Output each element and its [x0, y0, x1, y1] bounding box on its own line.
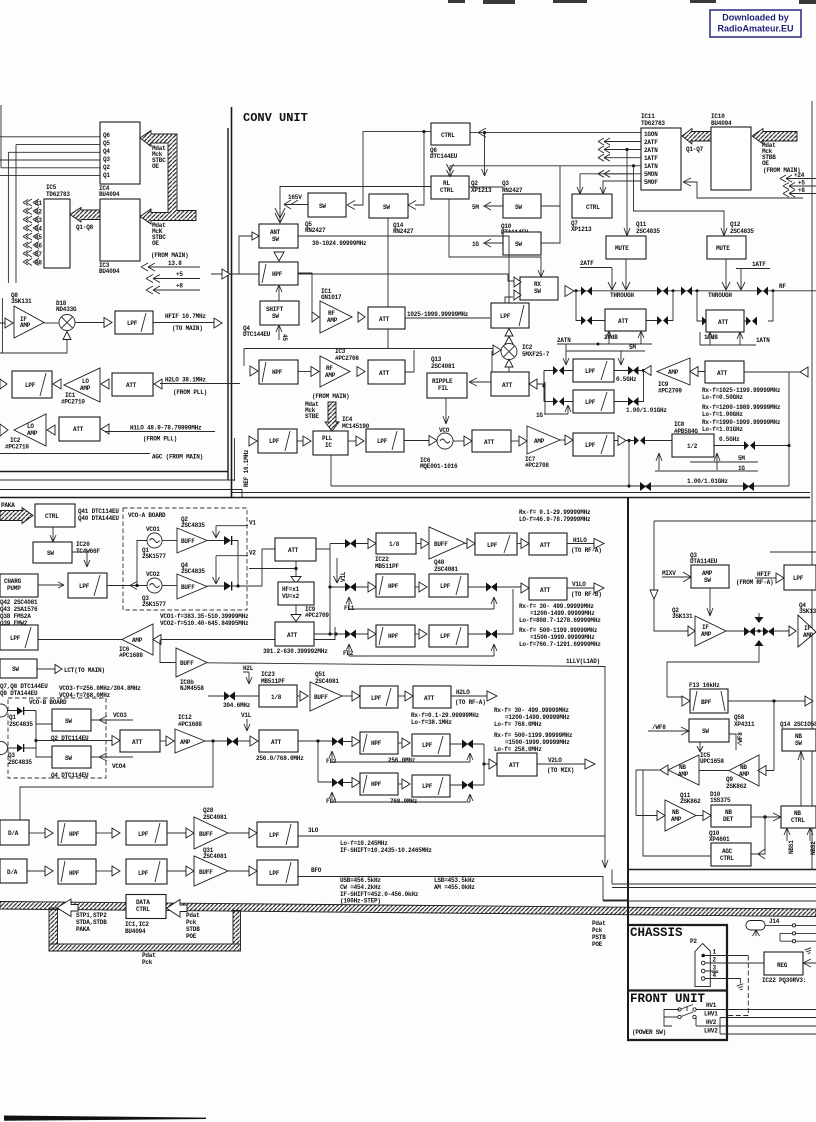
- svg-text:BU4094: BU4094: [99, 268, 120, 275]
- VCO-A board dashed box: [123, 508, 247, 610]
- diode VCO4: [17, 744, 24, 752]
- svg-text:IC4: IC4: [342, 416, 353, 423]
- svg-text:OE: OE: [152, 163, 159, 170]
- svg-text:PAKA: PAKA: [1, 502, 15, 509]
- data controller DATA CTRL: [126, 895, 166, 919]
- low pass filter LPF (RF-B): [784, 565, 816, 590]
- P2 pin3: [701, 969, 705, 973]
- svg-text:LO: LO: [82, 378, 89, 385]
- svg-text:5MXF25-7: 5MXF25-7: [522, 351, 550, 358]
- diode pair divider out: [744, 441, 755, 450]
- svg-text:BUFF: BUFF: [180, 660, 194, 667]
- high pass filter HPF (BFO): [58, 859, 96, 884]
- svg-text:ATT: ATT: [618, 318, 629, 325]
- wire LPF1 row: [544, 370, 651, 372]
- hatched arrow PAKA: [0, 508, 33, 524]
- switch SW Q5: [308, 193, 346, 217]
- svg-text:Rx-f=1200-1989.99999MHz: Rx-f=1200-1989.99999MHz: [702, 404, 781, 411]
- svg-text:Pdat: Pdat: [186, 912, 200, 919]
- LPF row4 input triangle: [402, 779, 410, 789]
- svg-text:HV1: HV1: [706, 1002, 717, 1009]
- RF AMP out triangle: [358, 312, 365, 322]
- svg-text:2SC4835: 2SC4835: [181, 522, 205, 529]
- svg-text:PUMP: PUMP: [7, 585, 21, 592]
- wire into Q11: [636, 770, 657, 816]
- wire SW LCT out: [37, 668, 55, 670]
- svg-text:LHV2: LHV2: [704, 1028, 718, 1035]
- svg-text:2SK862: 2SK862: [680, 798, 701, 805]
- svg-text:SW: SW: [47, 550, 54, 557]
- svg-text:IC23: IC23: [261, 671, 275, 678]
- svg-text:LPF: LPF: [138, 870, 149, 877]
- mixer IC2 bottom triangle: [505, 360, 513, 368]
- svg-text:Q28: Q28: [203, 807, 214, 814]
- svg-text:AMP: AMP: [678, 771, 689, 778]
- svg-text:MQE001-1016: MQE001-1016: [420, 463, 458, 470]
- IF AMP input triangle: [688, 626, 695, 636]
- ground symbol pin4: [737, 984, 745, 991]
- wire 5MON to CTRL Q7: [577, 174, 641, 194]
- wire BUFF Q51 to LPF: [342, 695, 352, 697]
- wire ATT2 out to rows: [314, 587, 330, 634]
- hatched arrow down into PLL: [325, 402, 339, 431]
- arrow ANT SW to HPF: [274, 252, 284, 261]
- wire WF8 arrow: [648, 727, 689, 735]
- wire pin1: [705, 955, 748, 957]
- svg-text:RL: RL: [443, 180, 450, 187]
- svg-text:BU4094: BU4094: [125, 928, 146, 935]
- wire ATT to AMP IC12: [160, 740, 166, 742]
- bottom page black bar: [4, 1116, 206, 1121]
- mixer D18: [59, 315, 75, 331]
- ATT right input triangle: [800, 367, 808, 377]
- switch SW IC20: [33, 542, 72, 563]
- open triangle into HF box: [291, 577, 301, 584]
- svg-text:HPF: HPF: [272, 369, 283, 376]
- svg-text:LPF: LPF: [500, 313, 511, 320]
- wire HFIF: [755, 577, 776, 579]
- AMP IC9 input triangle: [690, 367, 698, 377]
- svg-text:IC10: IC10: [711, 113, 725, 120]
- wire into ANT SW left from MAIN: [211, 236, 514, 281]
- wire LHV2: [720, 1018, 816, 1035]
- svg-text:(FROM PLL): (FROM PLL): [143, 436, 177, 443]
- diode pair on RF line 2: [657, 287, 668, 296]
- BPF out triangle: [805, 696, 813, 706]
- svg-text:AMP: AMP: [668, 369, 679, 376]
- BUFF Q48 input triangle: [421, 539, 429, 549]
- VCO-B board dashed box: [8, 698, 106, 778]
- P2 pin1: [701, 954, 705, 958]
- svg-text:STDB: STDB: [186, 926, 200, 933]
- svg-text:VCO1: VCO1: [146, 526, 160, 533]
- wire HPF to RF AMP: [298, 273, 312, 317]
- wire ATT rowA out: [405, 317, 490, 319]
- svg-text:NB: NB: [672, 809, 679, 816]
- svg-text:0.5GHz: 0.5GHz: [616, 376, 637, 383]
- mixer IC2 input triangle top: [505, 337, 513, 345]
- svg-text:ATT: ATT: [288, 547, 299, 554]
- MUTE Q12 output arrow: [722, 259, 730, 290]
- V1L arrow down: [244, 719, 250, 731]
- svg-text:DTC144EU: DTC144EU: [243, 331, 271, 338]
- svg-text:1LLV(L1AD): 1LLV(L1AD): [566, 658, 600, 665]
- svg-text:4: 4: [713, 972, 717, 979]
- svg-text:FRONT UNIT: FRONT UNIT: [630, 992, 706, 1006]
- oscillator VCO3: [0, 704, 8, 717]
- wire VCO3 to SW: [7, 711, 52, 725]
- wire VCO1 to BUFF1: [162, 540, 177, 542]
- svg-text:TD62783: TD62783: [46, 191, 70, 198]
- svg-text:1025-1999.99999MHz: 1025-1999.99999MHz: [407, 311, 469, 318]
- wire mixer bottom stub: [508, 367, 510, 372]
- svg-text:1ATF: 1ATF: [644, 155, 658, 162]
- wire RIPPLE FIL down to VCO: [443, 398, 449, 424]
- mixer D18 LO feed wire: [0, 340, 67, 354]
- svg-text:RN2427: RN2427: [393, 228, 414, 235]
- svg-text:(FROM MAIN): (FROM MAIN): [151, 252, 188, 259]
- wire BUFF Q31 to LPF: [228, 870, 249, 872]
- svg-text:NB: NB: [679, 764, 686, 771]
- junction dot bottom line: [627, 484, 630, 487]
- svg-text:Pdat: Pdat: [592, 920, 606, 927]
- svg-text:(TO RF-B): (TO RF-B): [571, 591, 602, 598]
- junction dot IC12 out: [211, 739, 214, 742]
- hatched bus arrow into IC4 and IC3: [140, 131, 196, 225]
- diode pair row4: [332, 778, 343, 787]
- diode V2: [224, 582, 232, 591]
- svg-text:2SC4081: 2SC4081: [203, 814, 227, 821]
- wire to ATT V2LO: [484, 763, 489, 765]
- LPF row3 input triangle: [565, 435, 573, 445]
- diode pair LPF1 right: [628, 366, 639, 375]
- RF AMP IC3 input triangle: [311, 367, 319, 377]
- wire rows HPF feed: [330, 587, 368, 634]
- svg-text:1.00/1.01GHz: 1.00/1.01GHz: [626, 407, 667, 414]
- svg-text:NB: NB: [725, 809, 732, 816]
- svg-text:SW: SW: [65, 755, 72, 762]
- svg-text:Q7,Q8 DTC144EU: Q7,Q8 DTC144EU: [0, 683, 48, 690]
- svg-text:2SC4081: 2SC4081: [203, 853, 227, 860]
- diode vertical bottom: [755, 640, 764, 646]
- hatched data bus band: [0, 902, 816, 917]
- svg-text:Q3: Q3: [502, 180, 509, 187]
- wire ATT V2LO out: [537, 763, 585, 765]
- svg-text:BUFF: BUFF: [199, 831, 213, 838]
- LPF PLL input triangle: [249, 436, 257, 446]
- CHASSIS FRONT divider: [627, 989, 727, 991]
- svg-text:(POWER SW): (POWER SW): [632, 1029, 666, 1036]
- svg-text:+5: +5: [798, 180, 805, 187]
- low pass filter LPF (V1LO row1): [429, 574, 468, 597]
- svg-text:1ATF: 1ATF: [752, 261, 766, 268]
- svg-text:1G: 1G: [536, 412, 543, 419]
- mute switch MUTE Q11: [606, 236, 646, 259]
- svg-text:PLL: PLL: [322, 435, 333, 442]
- wire HPF to LPF row3: [398, 742, 402, 744]
- ATT input triangle (row2): [101, 379, 109, 389]
- wire divider bypass vertical: [628, 441, 630, 487]
- V2 tap wire: [213, 556, 249, 584]
- wire CTRL Q6 left to SW switches: [353, 132, 431, 205]
- page divider line lower: [0, 497, 810, 499]
- svg-text:LPF: LPF: [487, 542, 498, 549]
- wire HPF2 to LPF2: [96, 870, 112, 872]
- 1ATF arrow into RF line: [737, 269, 745, 290]
- svg-text:Lo-f=1.00GHz: Lo-f=1.00GHz: [702, 411, 743, 418]
- svg-text:XP1213: XP1213: [571, 226, 592, 233]
- LO amplifier IC2: [14, 414, 46, 446]
- junction dot right bus: [787, 444, 790, 447]
- svg-text:LSB=453.5kHz: LSB=453.5kHz: [434, 877, 475, 884]
- svg-text:Q41 DTC114EU: Q41 DTC114EU: [78, 508, 119, 515]
- switch SW VCO3: [52, 709, 91, 731]
- wire pin2 to REG: [705, 962, 764, 964]
- diode pair LPF1 left: [553, 366, 564, 375]
- svg-text:Rx-f=0.1-29.99999MHz: Rx-f=0.1-29.99999MHz: [411, 712, 480, 719]
- AMP IC6 input triangle: [153, 635, 161, 645]
- NB DET input triangle: [703, 811, 711, 821]
- H1LO out triangle: [594, 539, 604, 549]
- mixer output wire: [75, 322, 104, 324]
- svg-text:2SC4835: 2SC4835: [9, 721, 33, 728]
- RF AMP input triangle: [312, 312, 319, 322]
- svg-text:DATA: DATA: [136, 899, 150, 906]
- +8 supply arrow: [783, 190, 816, 197]
- CONV unit left border: [231, 107, 233, 497]
- svg-text:REG: REG: [777, 962, 788, 969]
- svg-text:V1L: V1L: [340, 571, 347, 582]
- AMP IC7 input triangle: [519, 436, 527, 446]
- low pass filter LPF (H2LO): [360, 686, 398, 708]
- svg-text:CHASSIS: CHASSIS: [630, 926, 683, 940]
- oscillator VCO1: [147, 533, 162, 548]
- switch SW VCO4: [52, 746, 91, 768]
- svg-text:THROUGH: THROUGH: [610, 292, 634, 299]
- svg-text:AMP: AMP: [739, 771, 750, 778]
- svg-text:3: 3: [713, 965, 717, 972]
- svg-text:LPF: LPF: [79, 583, 90, 590]
- svg-text:Rx-f= 500-1199.99999MHz: Rx-f= 500-1199.99999MHz: [519, 627, 598, 634]
- hatched bus loop left leg: [49, 908, 58, 944]
- diode pair IC12 out: [227, 737, 238, 746]
- junction dot 2ATN: [597, 343, 600, 346]
- attenuator ATT (mixer feed): [491, 372, 529, 396]
- ATT input triangle (row3): [47, 425, 55, 435]
- svg-text:HPF: HPF: [388, 583, 399, 590]
- svg-text:RN2427: RN2427: [502, 187, 523, 194]
- svg-text:ATT: ATT: [271, 739, 282, 746]
- svg-text:2ATN: 2ATN: [557, 337, 571, 344]
- svg-text:SW: SW: [319, 203, 326, 210]
- diode vertical top: [755, 617, 764, 623]
- V1 tap wire: [213, 526, 249, 538]
- svg-text:Q58: Q58: [734, 714, 745, 721]
- junction dot CTRL feed: [422, 130, 425, 133]
- wire 165V arrow: [284, 200, 308, 209]
- power switch SW1: [678, 1005, 696, 1012]
- H2LO out triangle: [487, 691, 497, 701]
- junction dot NB det out: [763, 815, 766, 818]
- wire HPF to LPF row1: [415, 586, 419, 588]
- wire IC10 to IC11 arrow: [683, 178, 803, 198]
- wire LPF to ATT: [517, 543, 521, 545]
- controller CTRL Q7: [572, 194, 612, 218]
- wire H2LO: [160, 383, 240, 385]
- wire 3LO long: [298, 835, 605, 837]
- ATT 10dB bypass wires: [697, 291, 773, 321]
- svg-text:3LO: 3LO: [308, 827, 319, 834]
- wire LHV1: [720, 1017, 816, 1019]
- svg-text:1G: 1G: [738, 465, 745, 472]
- wire LPF to VCOs: [107, 541, 147, 586]
- wire LPF to PLL: [297, 440, 303, 442]
- row2 right triangle: [154, 379, 162, 389]
- svg-text:2: 2: [713, 957, 717, 964]
- ATT V1LO input triangle: [521, 583, 529, 593]
- svg-text:RF: RF: [326, 365, 333, 372]
- downloaded badge: [710, 10, 801, 37]
- svg-text:Q13: Q13: [431, 356, 442, 363]
- svg-text:=1500-1999.99999MHz: =1500-1999.99999MHz: [530, 634, 595, 641]
- LPF H1LO input triangle: [467, 539, 475, 549]
- svg-text:STDA,STDB: STDA,STDB: [76, 919, 107, 926]
- svg-text:LPF: LPF: [440, 633, 451, 640]
- svg-text:VCO-A BOARD: VCO-A BOARD: [128, 512, 166, 519]
- svg-text:CTRL: CTRL: [586, 204, 600, 211]
- junction dot V2LO out: [482, 762, 485, 765]
- svg-text:Downloaded by: Downloaded by: [722, 13, 789, 23]
- svg-text:FL4: FL4: [326, 798, 337, 805]
- junction dots RF line: [575, 289, 578, 292]
- svg-text:13.8: 13.8: [168, 260, 182, 267]
- oscillator VCO4: [0, 742, 8, 755]
- wire CHARG PUMP to LPF: [38, 582, 64, 588]
- wire Q11 to NB DET: [696, 815, 703, 817]
- attenuator ATT (H2LO): [413, 686, 451, 708]
- svg-text:#PC2709: #PC2709: [658, 388, 682, 395]
- wire J14 to pins: [765, 924, 792, 926]
- svg-text:LPF: LPF: [793, 575, 804, 582]
- svg-text:DTA114EU: DTA114EU: [690, 558, 718, 565]
- svg-text:ATT: ATT: [717, 370, 728, 377]
- LPF (H2LO): [12, 371, 52, 398]
- wire Q9 amp chain: [699, 701, 774, 771]
- wire PLL feedback bottom: [331, 455, 789, 486]
- wire ATT out to rows: [298, 741, 352, 783]
- svg-text:(TO RF-A): (TO RF-A): [571, 547, 602, 554]
- zigzag arrows B1-B8: [23, 199, 39, 266]
- svg-text:Rx-f= 30- 499.99999MHz: Rx-f= 30- 499.99999MHz: [519, 603, 594, 610]
- svg-text:H2LO 38.1MHz: H2LO 38.1MHz: [165, 377, 206, 384]
- svg-text:CTRL: CTRL: [720, 855, 734, 862]
- svg-text:2ATF: 2ATF: [580, 260, 594, 267]
- svg-text:#PC2710: #PC2710: [5, 444, 29, 451]
- wire mixer LO input: [244, 349, 493, 373]
- shift register IC10 BU4094: [711, 127, 751, 190]
- wire BFO long: [298, 877, 627, 901]
- svg-text:2SC4835: 2SC4835: [636, 228, 660, 235]
- low pass filter LPF (left col): [0, 625, 38, 650]
- wire switch left feed: [664, 1010, 680, 1027]
- buffer BUFF Q48: [429, 527, 465, 559]
- low pass filter LPF (H1LO): [475, 533, 517, 555]
- wire row3 to divider: [614, 440, 672, 442]
- controller CTRL Q6: [431, 123, 470, 145]
- svg-text:AM =455.0kHz: AM =455.0kHz: [434, 884, 475, 891]
- svg-text:ATT: ATT: [540, 587, 551, 594]
- svg-text:Lo-f=808.7-1278.69999MHz: Lo-f=808.7-1278.69999MHz: [519, 617, 601, 624]
- diode pair row1: [345, 583, 356, 592]
- BPF input triangle: [682, 696, 690, 706]
- HPF row B input triangle: [250, 366, 258, 376]
- svg-text:IC5: IC5: [46, 184, 57, 191]
- svg-text:HPF: HPF: [272, 271, 283, 278]
- svg-text:2SC4081: 2SC4081: [431, 363, 455, 370]
- high pass filter HPF (3LO): [58, 821, 96, 845]
- wire HF box to ATT2: [295, 605, 297, 614]
- wire PLL top arrow: [330, 428, 332, 431]
- divider select arrows: [656, 453, 720, 470]
- svg-text:AGC (FROM MAIN): AGC (FROM MAIN): [152, 454, 203, 461]
- mixer D18 LO input triangle: [63, 332, 71, 340]
- svg-text:(TO MAIN): (TO MAIN): [172, 325, 203, 332]
- wire HPF to RF AMP IC3: [298, 371, 311, 373]
- svg-text:MIXV: MIXV: [662, 570, 676, 577]
- svg-text:3SK131: 3SK131: [799, 608, 816, 615]
- svg-text:AMP: AMP: [80, 385, 91, 392]
- svg-text:V2: V2: [249, 550, 256, 557]
- wire MIXV arrow: [662, 572, 691, 582]
- svg-text:SW: SW: [515, 241, 522, 248]
- svg-text:SW: SW: [12, 666, 19, 673]
- PLL IC MC145190: [313, 431, 348, 455]
- ATT 20dB bypass wires: [576, 291, 673, 321]
- ATT VCO input triangle: [112, 736, 120, 746]
- svg-text:BUFF: BUFF: [434, 541, 448, 548]
- MUTE Q11 output arrow: [622, 259, 630, 290]
- wire ATT right to AMP: [698, 372, 789, 487]
- +5 supply arrow: [146, 275, 200, 283]
- svg-text:AMP: AMP: [132, 637, 143, 644]
- attenuator ATT (H1LO): [59, 417, 100, 441]
- connector pin circles: [792, 924, 795, 927]
- svg-text:2SC4081: 2SC4081: [434, 566, 458, 573]
- svg-text:D/A: D/A: [8, 830, 19, 837]
- NB switch NB SW: [782, 729, 816, 751]
- svg-text:CTRL: CTRL: [441, 132, 455, 139]
- arrow into SHIFT SW bottom: [276, 325, 282, 340]
- svg-text:SW: SW: [795, 740, 802, 747]
- svg-text:(100Hz-STEP): (100Hz-STEP): [340, 898, 381, 905]
- svg-text:XP4311: XP4311: [734, 721, 755, 728]
- svg-text:MUTE: MUTE: [615, 245, 629, 252]
- diode row3 out: [462, 740, 473, 749]
- wire LPF to RX SW: [505, 297, 513, 303]
- IF AMP2 input triangle: [789, 626, 796, 636]
- NBS1 arrow: [784, 828, 790, 841]
- svg-text:Pck: Pck: [592, 927, 603, 934]
- svg-text:SW: SW: [383, 204, 390, 211]
- svg-text:AMP: AMP: [803, 632, 814, 639]
- band pass filter BPF: [690, 689, 728, 713]
- wire LPF row3 out: [450, 744, 484, 785]
- wire LPF1 to BUFF: [167, 832, 186, 834]
- svg-text:LPF: LPF: [269, 438, 280, 445]
- svg-text:1/8: 1/8: [389, 541, 400, 548]
- diode V1: [224, 536, 232, 545]
- driver IC11 TD62783: [641, 128, 681, 190]
